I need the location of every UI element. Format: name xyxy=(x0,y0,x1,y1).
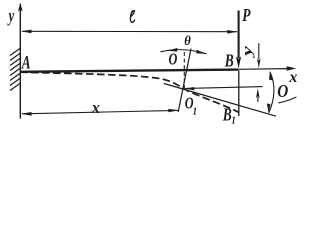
tangent line at O1 xyxy=(164,84,276,117)
x-axis arrowhead xyxy=(287,66,297,71)
svg-text:x: x xyxy=(91,98,100,117)
deflected beam axis (dashed curve A to B1) xyxy=(20,72,239,112)
rotated cross-section line through O1 xyxy=(178,49,191,113)
svg-text:y: y xyxy=(7,6,14,26)
svg-text:O: O xyxy=(169,51,178,69)
y-axis line (wall line) xyxy=(19,4,21,119)
dimension line x xyxy=(22,110,178,113)
theta arc right arrowhead xyxy=(196,50,206,54)
dimension line l xyxy=(22,30,237,32)
dimension l left arrowhead xyxy=(21,30,32,34)
label theta xyxy=(184,33,191,49)
x-axis extension beyond B xyxy=(239,68,288,71)
label P xyxy=(242,6,250,25)
node O1 subscript xyxy=(193,106,197,118)
svg-text:P: P xyxy=(242,6,250,25)
label l (script ell) xyxy=(130,11,134,23)
vertical dashed section line OO1 xyxy=(183,52,185,89)
horizontal line left arrowhead toward O1 xyxy=(185,87,195,90)
y axis label xyxy=(7,6,14,26)
svg-text:A: A xyxy=(21,51,31,73)
node B1 subscript xyxy=(231,115,235,127)
free-end arc bottom arrowhead (down) xyxy=(267,104,271,114)
node A label xyxy=(21,51,31,73)
svg-text:1: 1 xyxy=(231,115,235,127)
angle theta arc at free end xyxy=(269,72,274,113)
angle theta arc at section xyxy=(161,50,207,54)
dimension x right arrowhead xyxy=(168,109,178,113)
deflection y lower arrow shaft xyxy=(257,97,259,102)
svg-text:x: x xyxy=(288,69,297,86)
node B1 label xyxy=(222,106,232,125)
dimension l right arrowhead xyxy=(227,30,238,34)
label x (dimension) xyxy=(91,98,100,117)
svg-text:1: 1 xyxy=(193,106,197,118)
line BB1 (displacement of end B) xyxy=(238,71,240,117)
x axis label xyxy=(288,69,297,86)
node O label xyxy=(169,51,178,69)
beam AB (undeformed axis) xyxy=(20,70,239,72)
deflection y lower arrowhead (up) xyxy=(256,88,260,98)
dimension x left arrowhead xyxy=(21,112,32,116)
svg-text:θ: θ xyxy=(184,33,191,49)
force P arrowhead xyxy=(236,57,241,69)
y-axis arrowhead xyxy=(18,3,23,12)
horizontal line through O1 (deflection reference) xyxy=(186,87,263,89)
node B label xyxy=(224,52,234,71)
node O1 label xyxy=(185,95,194,113)
deflection y upper arrow shaft xyxy=(258,43,260,59)
leader swoosh under free-end theta xyxy=(278,97,296,103)
force P shaft xyxy=(238,11,240,59)
svg-text:O: O xyxy=(277,81,288,101)
svg-text:B: B xyxy=(224,52,234,71)
label theta at free end (script O form) xyxy=(277,81,288,101)
theta arc left arrowhead xyxy=(168,48,178,52)
svg-text:B: B xyxy=(222,106,232,125)
deflection y upper arrowhead (down) xyxy=(257,58,261,68)
wall hatching xyxy=(10,49,20,91)
free-end arc top arrowhead (up) xyxy=(269,71,273,81)
